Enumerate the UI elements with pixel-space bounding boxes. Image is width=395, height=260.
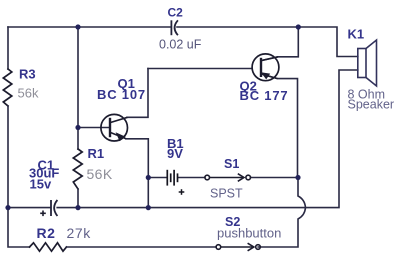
junction node Q1 emitter at battery wire [146,175,151,180]
junction node top-right (Q2 collector / speaker) [296,24,301,29]
capacitor C1 plus sign [40,211,46,217]
wire left rail top (to R3) [7,27,9,69]
transistor Q1 [101,114,128,141]
wire Q1 emitter down to ground rail [126,139,148,208]
wire left rail bottom (R3 to bottom-left corner) [8,106,30,247]
junction node R1 bottom at ground rail [75,205,80,210]
svg-text:56k: 56k [18,86,39,101]
wire Q1-collector node to Q2 base [148,68,252,70]
wire top rail right segment to speaker top [177,27,358,57]
battery B1 plus sign [179,189,185,195]
junction node Q1 emitter at ground rail [146,205,151,210]
svg-text:27k: 27k [67,225,92,241]
battery B1 [167,170,177,186]
ground rail left segment (to C1) [8,207,50,209]
svg-text:0.02 uF: 0.02 uF [159,38,202,52]
wire battery right to S1 [178,177,205,179]
wire Q1 base [78,127,110,129]
svg-text:C2: C2 [168,6,184,20]
capacitor C1 plates [51,200,57,216]
capacitor C2 plates [171,20,178,35]
wire battery left (Q1 emitter bus to B1) [148,177,166,179]
wire R1 to ground rail [77,189,79,208]
svg-text:K1: K1 [348,27,365,42]
junction node Q1 base [75,125,80,130]
wire Q2 emitter down to node [262,74,298,178]
switch S1 [205,174,251,182]
resistor R1 [73,149,82,189]
svg-text:9V: 9V [167,146,183,161]
svg-text:R3: R3 [19,67,36,82]
svg-text:BC 177: BC 177 [240,88,289,103]
speaker K1 [358,40,377,86]
svg-text:pushbutton: pushbutton [217,226,281,241]
wire Q2 collector up to top rail [262,27,299,61]
svg-text:15v: 15v [30,177,52,192]
svg-text:56K: 56K [87,166,113,182]
svg-text:R2: R2 [37,225,56,241]
svg-text:BC 107: BC 107 [97,87,146,102]
svg-text:Speaker: Speaker [348,98,395,112]
wire R2 to S2 [67,246,217,248]
junction node ground-left [5,205,10,210]
junction node top-left bus [75,24,80,29]
svg-text:R1: R1 [88,146,105,161]
wire S1 to Q2 emitter bus [251,177,299,179]
svg-text:S1: S1 [224,157,239,171]
svg-text:SPST: SPST [210,187,243,201]
wire top rail left segment [8,26,171,28]
wire Q2 emitter node down with hop over ground rail, to S2 right [258,178,305,248]
transistor Q2 [252,54,279,81]
ground rail right segment (C1 to speaker bottom) [57,70,358,208]
switch S2 [216,243,260,251]
resistor R2 [30,243,67,251]
wire Q1 collector horizontal and up to Q2 base line [127,69,148,118]
wire vertical bus x=78 (Q1 base node to R1) [77,128,79,150]
wire vertical bus x=78 top (top rail to Q1 base node) [77,27,79,128]
resistor R3 [3,69,12,106]
junction node Q2 emitter at S1 wire [295,175,300,180]
